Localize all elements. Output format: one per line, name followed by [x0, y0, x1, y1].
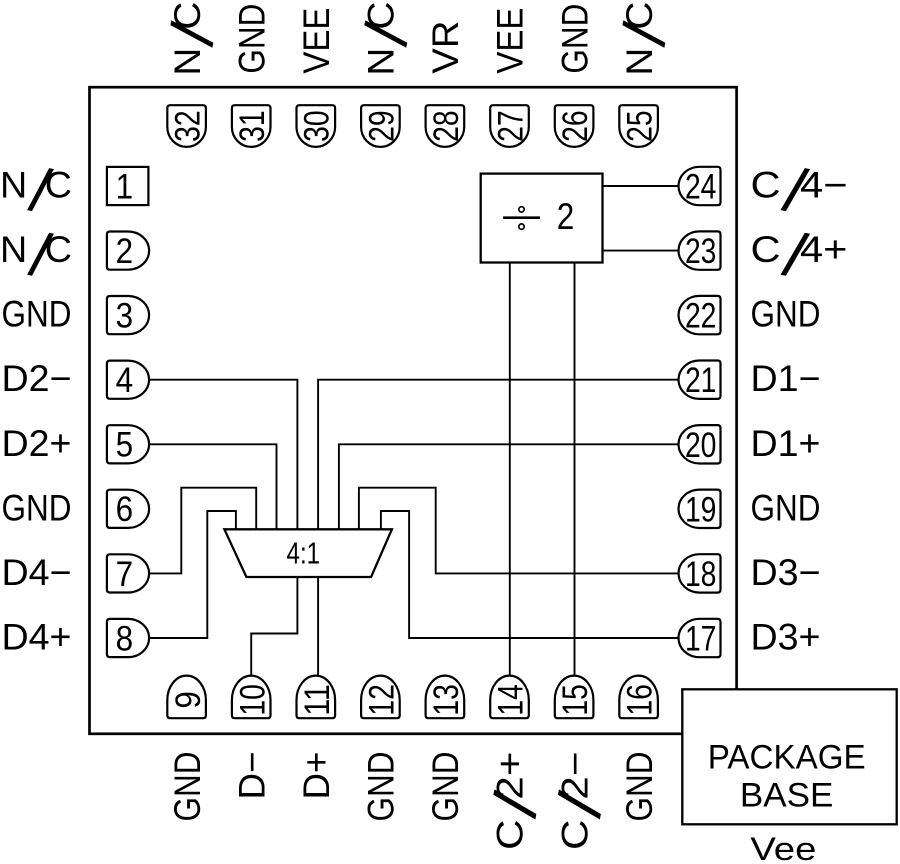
svg-text:23: 23 — [685, 232, 717, 271]
divider block U1 (divide-by-2) body — [481, 174, 603, 263]
svg-text:Vee: Vee — [750, 831, 816, 864]
svg-text:15: 15 — [556, 684, 595, 716]
svg-text:18: 18 — [685, 555, 717, 594]
wire divider U1 output to pin 24 (C/4-) — [603, 185, 680, 187]
svg-text:N/C: N/C — [158, 2, 229, 76]
wire pin 8 (D4+) to mux input — [149, 511, 236, 638]
wire pin 20 (D1+) to mux input — [339, 444, 680, 529]
pin 21 — [679, 361, 721, 399]
wire divider U1 input from pin 15 (C/2-) — [574, 263, 576, 677]
pin 11 — [297, 676, 336, 719]
svg-text:26: 26 — [556, 110, 595, 142]
pin 24 — [679, 167, 721, 205]
svg-text:GND: GND — [751, 294, 821, 335]
wire mux output to pin 10 (D-) — [251, 577, 297, 676]
svg-text:N/C: N/C — [610, 2, 681, 76]
svg-text:VEE: VEE — [490, 8, 531, 74]
svg-text:6: 6 — [116, 490, 134, 529]
pin 8 — [107, 619, 149, 657]
svg-text:27: 27 — [491, 110, 530, 142]
pin 4 — [107, 361, 149, 399]
wire pin 5 (D2+) to mux input — [149, 444, 277, 529]
pin 9 — [167, 676, 206, 719]
svg-text:C/2+: C/2+ — [481, 752, 553, 851]
pin 25 — [619, 105, 658, 147]
pin 5 — [107, 425, 149, 463]
pin 23 — [679, 231, 721, 269]
svg-text:17: 17 — [685, 620, 717, 659]
pin 20 — [679, 425, 721, 463]
svg-text:D2+: D2+ — [2, 423, 72, 464]
divider U1 divide sign bar — [503, 216, 540, 219]
svg-text:11: 11 — [298, 684, 337, 716]
pin 30 — [297, 105, 336, 147]
pin 18 — [679, 554, 721, 592]
svg-text:1: 1 — [116, 167, 134, 206]
divider U1 divide sign lower dot — [519, 224, 524, 229]
svg-text:25: 25 — [621, 110, 660, 142]
pin 14 — [490, 676, 529, 719]
svg-text:VEE: VEE — [296, 8, 337, 74]
pin 16 — [619, 676, 658, 719]
wire pin 17 (D3+) to mux input — [381, 511, 680, 638]
svg-text:10: 10 — [233, 684, 272, 716]
svg-text:22: 22 — [685, 297, 717, 336]
svg-text:GND: GND — [619, 752, 660, 822]
svg-text:14: 14 — [492, 684, 531, 716]
svg-text:D1−: D1− — [751, 358, 821, 399]
svg-text:C/4+: C/4+ — [751, 220, 848, 292]
pin 26 — [555, 105, 594, 147]
wire pin 21 (D1-) to mux input — [318, 380, 680, 530]
svg-text:GND: GND — [361, 752, 402, 822]
svg-text:N/C: N/C — [0, 156, 72, 227]
svg-text:7: 7 — [116, 555, 134, 594]
svg-text:D−: D− — [231, 752, 272, 800]
pin 13 — [426, 676, 465, 719]
svg-text:32: 32 — [169, 110, 208, 142]
wire pin 7 (D4-) to mux input — [149, 488, 256, 574]
svg-text:19: 19 — [685, 490, 717, 529]
svg-text:29: 29 — [362, 110, 401, 142]
svg-text:4:1: 4:1 — [287, 536, 321, 571]
svg-text:21: 21 — [685, 361, 717, 400]
pin 3 — [107, 296, 149, 334]
wire pin 18 (D3-) to mux input — [359, 488, 680, 574]
svg-text:24: 24 — [685, 168, 717, 207]
svg-text:VR: VR — [425, 21, 466, 74]
svg-text:20: 20 — [685, 426, 717, 465]
svg-text:GND: GND — [167, 752, 208, 822]
svg-text:D2−: D2− — [2, 358, 72, 399]
pin 29 — [361, 105, 400, 147]
svg-text:31: 31 — [233, 110, 272, 142]
svg-text:16: 16 — [621, 684, 660, 716]
svg-text:28: 28 — [427, 110, 466, 142]
pin 7 — [107, 554, 149, 592]
svg-text:12: 12 — [363, 684, 402, 716]
svg-text:13: 13 — [427, 684, 466, 716]
svg-text:D4+: D4+ — [2, 617, 72, 658]
svg-text:9: 9 — [169, 691, 208, 709]
svg-text:3: 3 — [116, 297, 134, 336]
pin 6 — [107, 490, 149, 528]
divider U1 divide sign upper dot — [519, 207, 524, 212]
pin 17 — [679, 619, 721, 657]
svg-text:4: 4 — [116, 361, 134, 400]
svg-text:5: 5 — [116, 426, 134, 465]
pin 28 — [426, 105, 465, 147]
svg-text:PACKAGE: PACKAGE — [708, 738, 866, 776]
wire pin 4 (D2-) to mux input — [149, 380, 298, 530]
pin 19 — [679, 490, 721, 528]
svg-text:D+: D+ — [296, 752, 337, 800]
svg-text:D3+: D3+ — [751, 617, 821, 658]
pin 1 — [107, 167, 148, 205]
svg-text:GND: GND — [425, 752, 466, 822]
svg-text:N/C: N/C — [0, 220, 72, 291]
svg-text:GND: GND — [231, 4, 272, 74]
svg-text:GND: GND — [2, 294, 72, 335]
pin 27 — [490, 105, 529, 147]
svg-text:2: 2 — [557, 196, 575, 237]
svg-text:D4−: D4− — [2, 552, 72, 593]
svg-text:C/4−: C/4− — [751, 156, 848, 228]
pin 22 — [679, 296, 721, 334]
svg-text:2: 2 — [116, 232, 134, 271]
pin 2 — [107, 232, 149, 270]
svg-text:8: 8 — [116, 619, 134, 658]
mux U2 (4:1 selector) body — [224, 529, 392, 577]
pin 10 — [232, 676, 271, 719]
wire divider U1 input from pin 14 (C/2+) — [509, 263, 511, 677]
wire mux output to pin 11 (D+) — [317, 577, 319, 676]
svg-text:GND: GND — [2, 487, 72, 528]
pin 32 — [167, 105, 206, 147]
svg-text:GND: GND — [751, 487, 821, 528]
svg-text:BASE: BASE — [740, 777, 834, 815]
svg-text:D1+: D1+ — [751, 423, 821, 464]
svg-text:D3−: D3− — [751, 552, 821, 593]
svg-text:C/2−: C/2− — [546, 752, 618, 851]
pin 15 — [555, 676, 594, 719]
svg-text:30: 30 — [298, 110, 337, 142]
package outline (32-lead chip body) — [90, 87, 737, 734]
pin 31 — [232, 105, 271, 147]
pin 12 — [361, 676, 400, 719]
svg-text:GND: GND — [554, 4, 595, 74]
wire divider U1 output to pin 23 (C/4+) — [603, 250, 680, 252]
package base box — [682, 689, 896, 824]
svg-text:N/C: N/C — [352, 2, 423, 76]
